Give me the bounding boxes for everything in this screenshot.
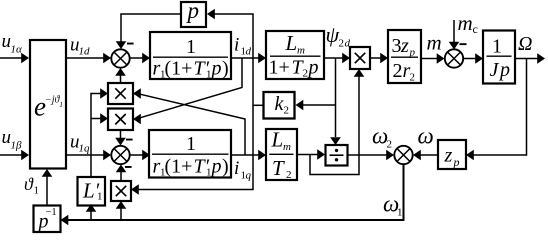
svg-text:1: 1 — [186, 36, 196, 58]
svg-text:2: 2 — [410, 72, 416, 84]
divider block — [326, 145, 348, 166]
block Lm/T2 slip gain — [266, 129, 297, 180]
wire theta1 from integrator up into e block — [46, 176, 48, 205]
block k2 flux coefficient — [264, 92, 295, 119]
wire loop from divider input up to torque multiplier — [310, 76, 359, 175]
svg-text:1: 1 — [492, 36, 502, 58]
wire k2 output down and left into bottom multiplier — [253, 104, 264, 106]
svg-text:p: p — [498, 59, 510, 81]
wire multiplier output to 3zp block — [370, 57, 381, 59]
wire p feedback output into d junction (minus) — [121, 14, 180, 42]
multiplier torque X3 — [350, 47, 370, 69]
svg-text:1α: 1α — [11, 44, 23, 56]
wire Lm/T2 output to divider — [297, 154, 318, 156]
svg-text:2: 2 — [284, 105, 290, 117]
svg-text:1β: 1β — [11, 140, 23, 152]
wire q junction to q-axis block — [130, 154, 144, 156]
wire i1d cross branch down to lower multiplier — [140, 58, 242, 118]
svg-text:1: 1 — [397, 207, 403, 219]
multiplier bottom emf X4 — [111, 181, 131, 201]
svg-text:): ) — [222, 58, 229, 80]
svg-text:1: 1 — [34, 185, 40, 197]
block e^-j-theta1 U1 coordinate transform — [30, 40, 66, 169]
node minus sign at torque junction — [460, 43, 467, 45]
svg-text:q: q — [246, 170, 252, 182]
block p derivative — [181, 2, 206, 27]
svg-text:): ) — [222, 156, 229, 178]
svg-text:z: z — [400, 35, 409, 57]
svg-text:m: m — [458, 11, 473, 35]
node minus sign at q junction top — [126, 139, 133, 141]
wire omega from zp to speed junction — [420, 154, 438, 156]
svg-text:3: 3 — [392, 35, 402, 57]
block d-axis stator 1/r1(1+T'1p) — [150, 32, 231, 79]
svg-text:z: z — [444, 145, 453, 167]
block L'1 leakage inductance — [78, 177, 106, 206]
svg-text:J: J — [490, 59, 500, 81]
block Lm/(1+T2p) rotor flux — [266, 31, 324, 79]
svg-text:T: T — [272, 156, 285, 180]
wire omega1 stub up into L'1 — [90, 211, 92, 220]
svg-text:ϑ: ϑ — [24, 174, 34, 194]
block 3zp/2r2 torque constant — [388, 30, 421, 83]
svg-text:m: m — [297, 45, 305, 57]
summing junction q-axis — [111, 146, 129, 164]
block q-axis stator 1/r1(1+T'1p) — [149, 130, 231, 178]
wire junction to 1/Jp — [463, 58, 476, 60]
svg-text:p: p — [210, 156, 222, 178]
svg-text:(1+: (1+ — [165, 58, 193, 80]
svg-text:m: m — [283, 141, 291, 153]
svg-text:2: 2 — [387, 139, 393, 151]
svg-text:−1: −1 — [46, 207, 57, 218]
wire omega1 stub up into bottom multiplier — [120, 208, 122, 220]
wire u1q — [66, 154, 104, 156]
wire u1beta input — [0, 154, 22, 156]
wire psi2d branch down to divider — [335, 58, 337, 137]
svg-text:m: m — [427, 31, 442, 55]
svg-text:1: 1 — [97, 191, 103, 203]
svg-text:d: d — [246, 46, 252, 58]
svg-text:i: i — [234, 35, 239, 56]
svg-text:2: 2 — [303, 68, 309, 80]
svg-text:L: L — [271, 128, 284, 152]
wire Omega output — [514, 58, 538, 60]
block p^-1 integrator — [34, 206, 61, 233]
node minus sign at q junction bottom — [125, 166, 132, 168]
summing junction d-axis — [111, 49, 129, 67]
wire omega2 from divider to speed junction — [348, 154, 387, 156]
svg-text:−jϑ: −jϑ — [45, 94, 61, 105]
svg-text:p: p — [186, 0, 200, 23]
wire stub into lower multiplier — [91, 118, 101, 120]
wire i1d output — [231, 57, 259, 59]
summing junction speed — [394, 146, 412, 164]
svg-text:1q: 1q — [79, 143, 91, 155]
wire i1q output — [231, 154, 259, 156]
multiplier lower cross-coupling X2 — [108, 109, 133, 131]
node minus sign at d junction top — [127, 43, 134, 45]
wire i1q cross branch up to upper multiplier — [140, 94, 245, 155]
wire psi2d branch into k2 — [302, 104, 336, 106]
svg-text:i: i — [234, 158, 239, 179]
svg-text:(1+: (1+ — [165, 156, 193, 178]
wire u1alpha input — [0, 57, 22, 59]
svg-text:c: c — [473, 22, 478, 36]
svg-text:ψ: ψ — [326, 22, 340, 47]
svg-text:1: 1 — [59, 100, 63, 109]
svg-text:1+: 1+ — [269, 57, 290, 79]
svg-text:ω: ω — [418, 124, 434, 149]
svg-text:2: 2 — [339, 38, 345, 50]
svg-text:1d: 1d — [79, 46, 91, 58]
svg-text:Ω: Ω — [518, 33, 532, 55]
svg-text:p: p — [210, 58, 222, 80]
multiplier upper cross-coupling X1 — [108, 83, 133, 104]
wire psi2d — [324, 57, 343, 59]
svg-text:p: p — [453, 155, 460, 169]
block zp pole pairs — [438, 140, 466, 169]
block 1/Jp mechanical — [483, 31, 515, 84]
wire L'1 output up to both multipliers — [91, 94, 101, 178]
wire i1d branch up to p block — [214, 14, 253, 58]
wire lower multiplier output down into q junction (minus) — [120, 130, 122, 139]
svg-text:p: p — [307, 57, 319, 79]
wire Omega feedback down to zp — [473, 59, 527, 156]
wire omega1 feedback bottom — [67, 164, 404, 220]
svg-text:2: 2 — [286, 169, 292, 181]
wire d junction to d-axis block — [130, 57, 144, 59]
wire upper multiplier output up into d junction — [120, 74, 122, 83]
wire bottom multiplier output up into q junction (minus) — [120, 171, 122, 181]
svg-text:1: 1 — [186, 133, 196, 155]
svg-text:L: L — [285, 31, 298, 55]
svg-text:2: 2 — [393, 60, 403, 82]
wire u1d — [66, 57, 104, 59]
wire m to torque junction — [421, 58, 437, 60]
wire mc load torque input (minus) — [453, 20, 455, 43]
summing junction torque — [445, 49, 463, 67]
